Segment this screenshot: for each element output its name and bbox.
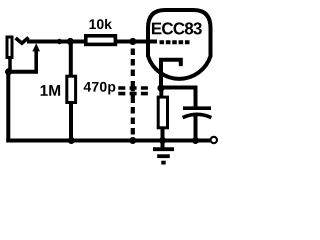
node 470p / ground rail junction — [129, 137, 136, 144]
output terminal (open circle) — [211, 137, 217, 143]
wire arrow shaft — [34, 50, 38, 72]
tube cathode electrode — [161, 60, 181, 90]
wire dashed lead crossing bottom plate — [131, 94, 135, 103]
node small solder dot on grid wire — [57, 39, 62, 44]
capacitor C2 bypass top plate — [183, 106, 211, 110]
wire cathode resistor top lead — [159, 88, 163, 98]
node 1M / ground rail junction — [68, 137, 75, 144]
wire ground rail — [6, 139, 210, 143]
wire left rail down — [6, 72, 10, 143]
label 470p — [84, 82, 116, 95]
resistor R3 cathode body — [158, 97, 167, 128]
capacitor C1 470p bottom plate (dashed) — [118, 92, 148, 96]
wire dashed lead crossing top plate — [131, 81, 135, 91]
node bypass cap / ground rail junction — [192, 137, 199, 144]
resistor R1 10k body — [86, 36, 116, 45]
jack tip contact (check mark) — [16, 38, 29, 44]
node grid wire / 470p junction — [129, 38, 136, 45]
wire top grid line — [27, 40, 157, 44]
wire dashed 470p top lead — [131, 49, 135, 77]
label ECC83 — [152, 22, 202, 34]
wire 1M top lead — [69, 42, 73, 78]
node grid wire / 1M junction — [67, 38, 74, 45]
wire 1M bottom lead — [69, 102, 73, 141]
label 1M — [41, 85, 61, 96]
node cathode resistor / ground rail junction — [159, 137, 166, 144]
node jack/ground junction — [5, 68, 12, 75]
wire dashed 470p bottom lead — [131, 107, 135, 137]
wire cathode resistor bottom lead — [161, 127, 165, 141]
capacitor C1 470p top plate (dashed) — [118, 86, 148, 90]
input jack J1 plug body — [7, 37, 12, 58]
node cathode junction — [157, 84, 164, 91]
wire bypass cap bottom lead — [194, 116, 198, 141]
tube grid electrode (dashed) — [160, 40, 190, 44]
capacitor C2 bypass curved plate — [183, 114, 212, 117]
label 10k — [89, 19, 111, 29]
wire jack ground run — [7, 70, 38, 74]
jack switch contact arrow — [32, 43, 40, 51]
ground symbol — [153, 141, 174, 163]
wire cathode to bypass cap — [161, 88, 196, 108]
resistor R2 1M body — [67, 76, 76, 102]
tube V1 ECC83 envelope — [148, 10, 211, 79]
wire jack sleeve lead down — [8, 58, 12, 72]
